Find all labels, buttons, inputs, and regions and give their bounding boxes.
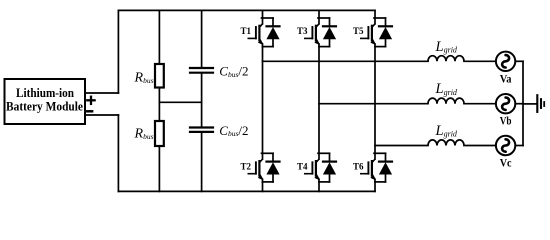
svg-text:Rbus: Rbus — [134, 127, 154, 142]
wire collector leg 1 from top rail — [262, 10, 264, 18]
svg-text:T6: T6 — [353, 161, 364, 171]
svg-text:T1: T1 — [240, 26, 251, 36]
wire R2 to bottom rail — [158, 146, 160, 191]
inductor Lgrid phase b — [428, 98, 464, 104]
diode of T4 — [323, 153, 336, 182]
wire C1 to C2 — [201, 74, 203, 127]
diode of T5 — [379, 18, 392, 47]
wire midleg 1 vertical — [262, 47, 264, 154]
svg-text:T2: T2 — [240, 161, 251, 171]
diode of T6 — [379, 153, 392, 182]
svg-text:T4: T4 — [297, 161, 308, 171]
AC source Vb — [496, 94, 515, 113]
wire phase b line right — [464, 103, 496, 105]
wire R1 to midpoint — [158, 88, 160, 122]
resistor Rbus upper — [155, 64, 164, 88]
inductor Lgrid phase a — [428, 56, 464, 62]
wire emitter leg 1 to bottom rail — [262, 182, 264, 192]
wire Vb to right bus — [515, 103, 523, 105]
wire midleg 3 vertical — [374, 47, 376, 154]
wire phase c line right — [464, 145, 496, 147]
wire DC midpoint horizontal — [159, 101, 201, 103]
wire phase b line left — [319, 103, 428, 105]
wire left bus negative vertical — [117, 115, 119, 191]
wire loop bars of T6 — [374, 153, 386, 182]
wire midleg 2 vertical — [318, 47, 320, 154]
svg-text:Cbus/2: Cbus/2 — [219, 64, 248, 79]
wire loop bars of T5 — [374, 18, 386, 47]
wire loop bars of T4 — [318, 153, 330, 182]
diode of T3 — [323, 18, 336, 47]
wire top DC rail — [118, 9, 375, 11]
svg-text:Battery Module: Battery Module — [6, 98, 83, 113]
AC source Vc — [496, 136, 515, 155]
transistor T2 — [248, 153, 263, 182]
transistor T6 — [361, 153, 376, 182]
wire Va to right bus — [515, 60, 523, 62]
svg-text:Vc: Vc — [500, 156, 512, 170]
transistor T1 — [248, 18, 263, 47]
capacitor Cbus/2 upper — [190, 68, 213, 73]
wire loop bars of T2 — [262, 153, 274, 182]
svg-text:Lgrid: Lgrid — [435, 81, 458, 97]
wire bottom DC rail — [118, 190, 375, 192]
wire collector leg 3 from top rail — [374, 10, 376, 18]
wire emitter leg 3 to bottom rail — [374, 182, 376, 192]
svg-text:T5: T5 — [353, 26, 364, 36]
wire phase c line left — [375, 145, 428, 147]
transistor T3 — [305, 18, 320, 47]
wire loop bars of T3 — [318, 18, 330, 47]
inductor Lgrid phase c — [428, 140, 464, 146]
battery module box — [5, 79, 86, 124]
svg-text:Lgrid: Lgrid — [435, 39, 458, 55]
diode of T2 — [266, 153, 279, 182]
resistor Rbus lower — [155, 121, 164, 146]
ground — [537, 95, 544, 112]
wire C2 to bottom rail — [201, 133, 203, 191]
transistor T5 — [361, 18, 376, 47]
wire collector leg 2 from top rail — [318, 10, 320, 18]
diode of T1 — [266, 18, 279, 47]
wire Vc to right bus — [515, 145, 523, 147]
wire top rail to R1 — [158, 10, 160, 64]
wire left bus positive vertical — [117, 10, 119, 93]
wire loop bars of T1 — [262, 18, 274, 47]
wire battery minus to bus — [85, 114, 118, 116]
svg-text:Cbus/2: Cbus/2 — [219, 123, 248, 138]
wire to ground — [523, 103, 537, 105]
wire top rail to C1 — [201, 10, 203, 67]
wire right neutral bus — [522, 61, 524, 145]
AC source Va — [496, 52, 515, 71]
svg-text:Lgrid: Lgrid — [435, 123, 458, 139]
svg-text:Va: Va — [500, 71, 512, 85]
transistor T4 — [305, 153, 320, 182]
plus terminal label — [87, 97, 94, 104]
svg-text:Vb: Vb — [500, 114, 512, 128]
svg-text:Rbus: Rbus — [134, 71, 154, 86]
wire battery plus to bus — [85, 92, 118, 94]
wire phase a line left — [263, 60, 429, 62]
capacitor Cbus/2 lower — [190, 128, 213, 132]
wire emitter leg 2 to bottom rail — [318, 182, 320, 192]
svg-text:T3: T3 — [297, 26, 308, 36]
wire phase a line right — [464, 60, 496, 62]
minus terminal label — [87, 110, 92, 113]
